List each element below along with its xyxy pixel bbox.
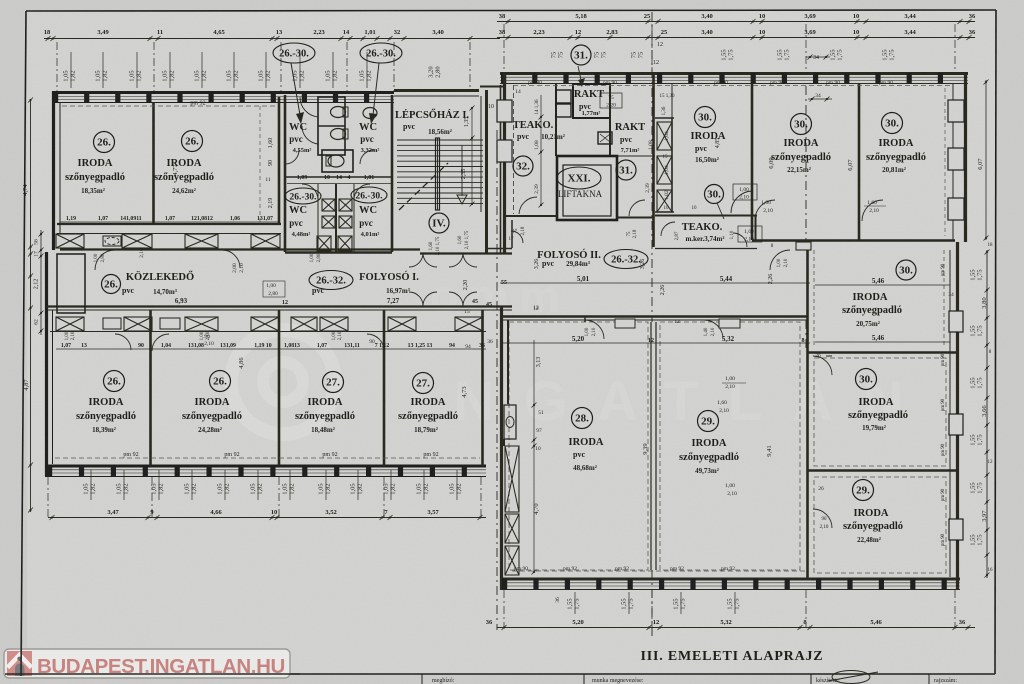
junction wall below TEAKO upper — [485, 248, 512, 250]
watermark circle logo — [231, 330, 335, 434]
room 30C labels — [882, 113, 903, 134]
room 32 circle — [513, 156, 533, 176]
small cabinet fixture lower row — [103, 318, 121, 329]
WC right urinal — [363, 108, 377, 119]
room 19,79 dashed inset — [814, 358, 946, 466]
WC block west wall — [284, 95, 287, 252]
corridor south wall — [46, 305, 512, 307]
room 30A labels — [695, 107, 716, 128]
stair direction arrow down — [461, 145, 463, 196]
room 26/1 number circle — [94, 132, 115, 153]
pm 92 dashed and labels bottom right wing — [512, 570, 806, 572]
WC lower-right ellipse 26-30 — [351, 187, 387, 203]
WC block east wall / stairwell west wall — [391, 95, 394, 252]
lift label ellipse XXI — [557, 167, 601, 189]
room 26/2 number circle — [182, 131, 203, 152]
room 31 circle interior — [616, 160, 636, 180]
room 28 west wall inner line — [507, 320, 509, 404]
corridor II top wall left of lift — [504, 215, 557, 217]
room 30A door label boxed — [733, 184, 757, 200]
room 28 dashed inset — [509, 322, 648, 570]
corridor window xbox row upper — [56, 234, 84, 248]
room 19,79 south wall — [808, 469, 958, 472]
door small west wall — [511, 231, 523, 243]
corridor KOZLEKEDO labels — [102, 275, 121, 294]
corridor II window fixtures on south wall — [615, 319, 635, 328]
right wing east exterior wall lower — [956, 242, 959, 590]
top rooms south wall (corridor upper wall) — [57, 223, 281, 225]
room 20,75 south wall — [808, 351, 958, 354]
right wing south exterior wall — [500, 578, 960, 581]
right wall window boxes — [948, 100, 964, 122]
ellipse 26-30 callout left — [273, 43, 315, 63]
top dimension line left wing — [44, 38, 500, 40]
wall right of lift — [617, 155, 655, 157]
lift shaft inner wall — [563, 165, 611, 216]
bottom rooms parapet dashed pm 92 — [55, 457, 480, 459]
WC lower-left ellipse 26-30 — [285, 188, 321, 204]
WC urinal fixture upper — [331, 107, 346, 118]
room 30A door circle — [705, 185, 724, 204]
bottom dim line right wing — [497, 627, 975, 629]
TEAKO m.ker room walls — [655, 215, 757, 217]
WC mid partition wall — [285, 176, 392, 178]
dim row above corridor (y220) — [60, 221, 280, 223]
bottom room 27/2 labels — [413, 373, 434, 394]
corridor II wall protrusion — [796, 242, 811, 250]
folyoso II dim line — [500, 282, 810, 284]
bottom rooms wall 27/27 — [383, 310, 386, 466]
WC door arcs upper — [300, 97, 318, 117]
room 22,48 dashed inset — [814, 477, 946, 573]
right dimension column — [986, 250, 988, 578]
small cabinet fixture next to corridor — [103, 236, 121, 246]
right wing east exterior wall upper — [964, 72, 967, 242]
stairwell number circle IV — [429, 213, 449, 233]
door bottom room 27/2 — [367, 334, 384, 351]
room 29 labels — [698, 411, 719, 432]
TEAKO east wall — [555, 84, 557, 156]
RAKT1 walls — [573, 84, 610, 118]
door office 26/1 to corridor — [95, 250, 115, 270]
shaft boxes left of RAKT1 — [556, 90, 571, 103]
rooms 30B/30C divider — [858, 84, 861, 240]
courtyard window column east of x655 — [671, 118, 673, 212]
entrance double door set 1 — [409, 253, 423, 267]
office 26/2 east wall — [278, 97, 281, 224]
corridor KOZLEKEDO north wall line — [60, 248, 420, 250]
door office 26/2 top wall — [222, 250, 240, 268]
right rooms west wall — [806, 240, 809, 580]
WC upper stalls partition box — [318, 97, 345, 155]
doors right wing — [585, 320, 604, 339]
left wing west exterior wall lower — [45, 252, 48, 476]
WC door arcs lower — [360, 150, 374, 164]
right wing west exterior wall lower — [500, 306, 503, 590]
top rooms parapet dashed pm 90 — [513, 85, 950, 87]
rooms 30 south wall — [752, 239, 955, 242]
WC urinal fixture lower — [331, 129, 346, 140]
logo plate background — [4, 649, 290, 678]
door bottom room 26/3 arc — [115, 334, 131, 350]
right wing north wall piers — [501, 73, 506, 84]
rooms 30A/30B divider — [751, 84, 754, 240]
stair dashed cut line — [399, 163, 448, 210]
left wing south exterior wall — [45, 465, 486, 468]
long section dash line x806 — [805, 86, 807, 240]
corridor junction wall to right wing — [420, 252, 512, 254]
bottom dim line left wing — [48, 517, 486, 519]
interior wall x655 top — [652, 72, 655, 247]
door TEAKO mker — [733, 233, 747, 247]
left wall window boxes upper — [497, 100, 512, 122]
building seam wall — [500, 85, 502, 254]
entrance double door set 2 — [449, 253, 463, 267]
stairwell LEPCSOHAZ room — [397, 140, 483, 204]
room 31 circle top — [571, 45, 591, 65]
secondary left column ticks — [40, 230, 42, 335]
small shaft fixture below RAKT1 — [598, 132, 612, 144]
office 26/2 dashed beam line — [259, 106, 261, 222]
left wing north exterior wall — [52, 93, 394, 103]
RAKT1 door dim boxed — [600, 93, 622, 108]
RAKT1 RAKT2 divider region wall — [610, 117, 655, 119]
bottom room 26/4 labels — [210, 371, 231, 392]
stair stringer — [436, 138, 440, 210]
WC lower shaft xboxes — [322, 199, 335, 211]
left wing north wall window piers — [53, 92, 58, 103]
room 28 west niche with WC fixture — [504, 405, 516, 439]
long section dash line x497 — [496, 130, 498, 630]
door bottom room 26/4 — [152, 334, 169, 351]
room 30 2075 labels — [896, 260, 916, 280]
room 29 dashed inset — [660, 322, 800, 570]
footer table — [422, 674, 929, 684]
left wing south wall window piers — [47, 466, 52, 477]
bottom rooms east wall — [481, 310, 484, 466]
room 28 labels — [572, 408, 593, 429]
right wing south wall piers — [502, 579, 507, 590]
WC lower center shaft wall — [335, 184, 337, 252]
long section dash line x652 — [651, 12, 653, 322]
corridor II lower dim line — [500, 342, 810, 344]
stairwell east wall — [485, 90, 488, 254]
top dim lines right wing row1 — [497, 21, 975, 23]
stair internal dim line — [471, 108, 473, 204]
border line over logo — [20, 640, 22, 676]
right wing north exterior wall — [500, 72, 968, 75]
bottom rooms north window sill line — [50, 331, 486, 333]
bottom rooms wall 26/26 — [149, 310, 152, 466]
footer signature scribble — [832, 671, 870, 684]
corridor II top wall right of lift — [617, 217, 653, 219]
TEAKO m.ker west door arc — [661, 222, 675, 236]
room 30C dashed inset — [944, 88, 946, 236]
teako mker dims — [738, 226, 762, 242]
WC middle toilet cubicle — [322, 150, 353, 172]
room 20,75 dashed inset — [813, 250, 815, 348]
ellipse 26-30 callout right — [360, 43, 402, 63]
lift shaft outer wall — [557, 156, 617, 220]
wall between offices 26 and 26 top row — [152, 103, 155, 224]
corridor window xbox row lower — [56, 317, 84, 331]
WC block south wall — [285, 251, 392, 253]
left dimension column — [30, 100, 32, 512]
rooms 28-29 divider wall with dashes — [650, 322, 652, 570]
corridor II south wall — [500, 315, 808, 318]
corridor west vestibule walls — [57, 254, 85, 313]
axis dash-dot lines — [56, 42, 58, 91]
room 30B labels — [791, 114, 812, 135]
stairwell north wall — [394, 89, 479, 92]
RAKT2 west wall — [609, 84, 611, 156]
top row parapet dashed line pm 92 — [62, 105, 277, 107]
bottom rooms wall 26/27 — [278, 310, 281, 466]
corridor FOLYOSO I labels — [309, 271, 353, 290]
room 28 west window xbox column — [505, 446, 519, 512]
room 30A west boundary — [671, 84, 673, 212]
mid dim row WC — [287, 183, 392, 185]
logo house icon — [7, 651, 32, 676]
bottom room 26/3 labels — [104, 371, 125, 392]
top dim lines right wing row2 — [497, 37, 975, 39]
right wing west exterior wall upper — [503, 72, 506, 254]
bottom room 27/1 labels — [323, 372, 344, 393]
room 30 1979 labels — [856, 369, 877, 390]
lift lobby door arc — [629, 200, 645, 216]
TEAKO door arc — [519, 197, 537, 214]
left wing west exterior wall upper — [52, 91, 55, 250]
room 29 2248 labels — [853, 480, 874, 501]
